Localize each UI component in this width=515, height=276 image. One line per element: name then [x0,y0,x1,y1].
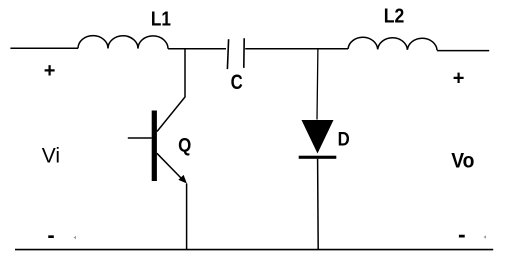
svg-text:C: C [231,71,243,94]
svg-text:-: - [47,223,54,248]
svg-text:L2: L2 [384,4,405,26]
svg-text:Vo: Vo [451,150,474,173]
svg-text:Vi: Vi [42,145,60,168]
svg-text:-: - [458,221,466,247]
svg-text:D: D [338,128,350,149]
svg-text:+: + [453,68,465,90]
svg-text:+: + [44,60,56,82]
svg-text:L1: L1 [151,7,171,30]
svg-text:Q: Q [178,135,191,156]
